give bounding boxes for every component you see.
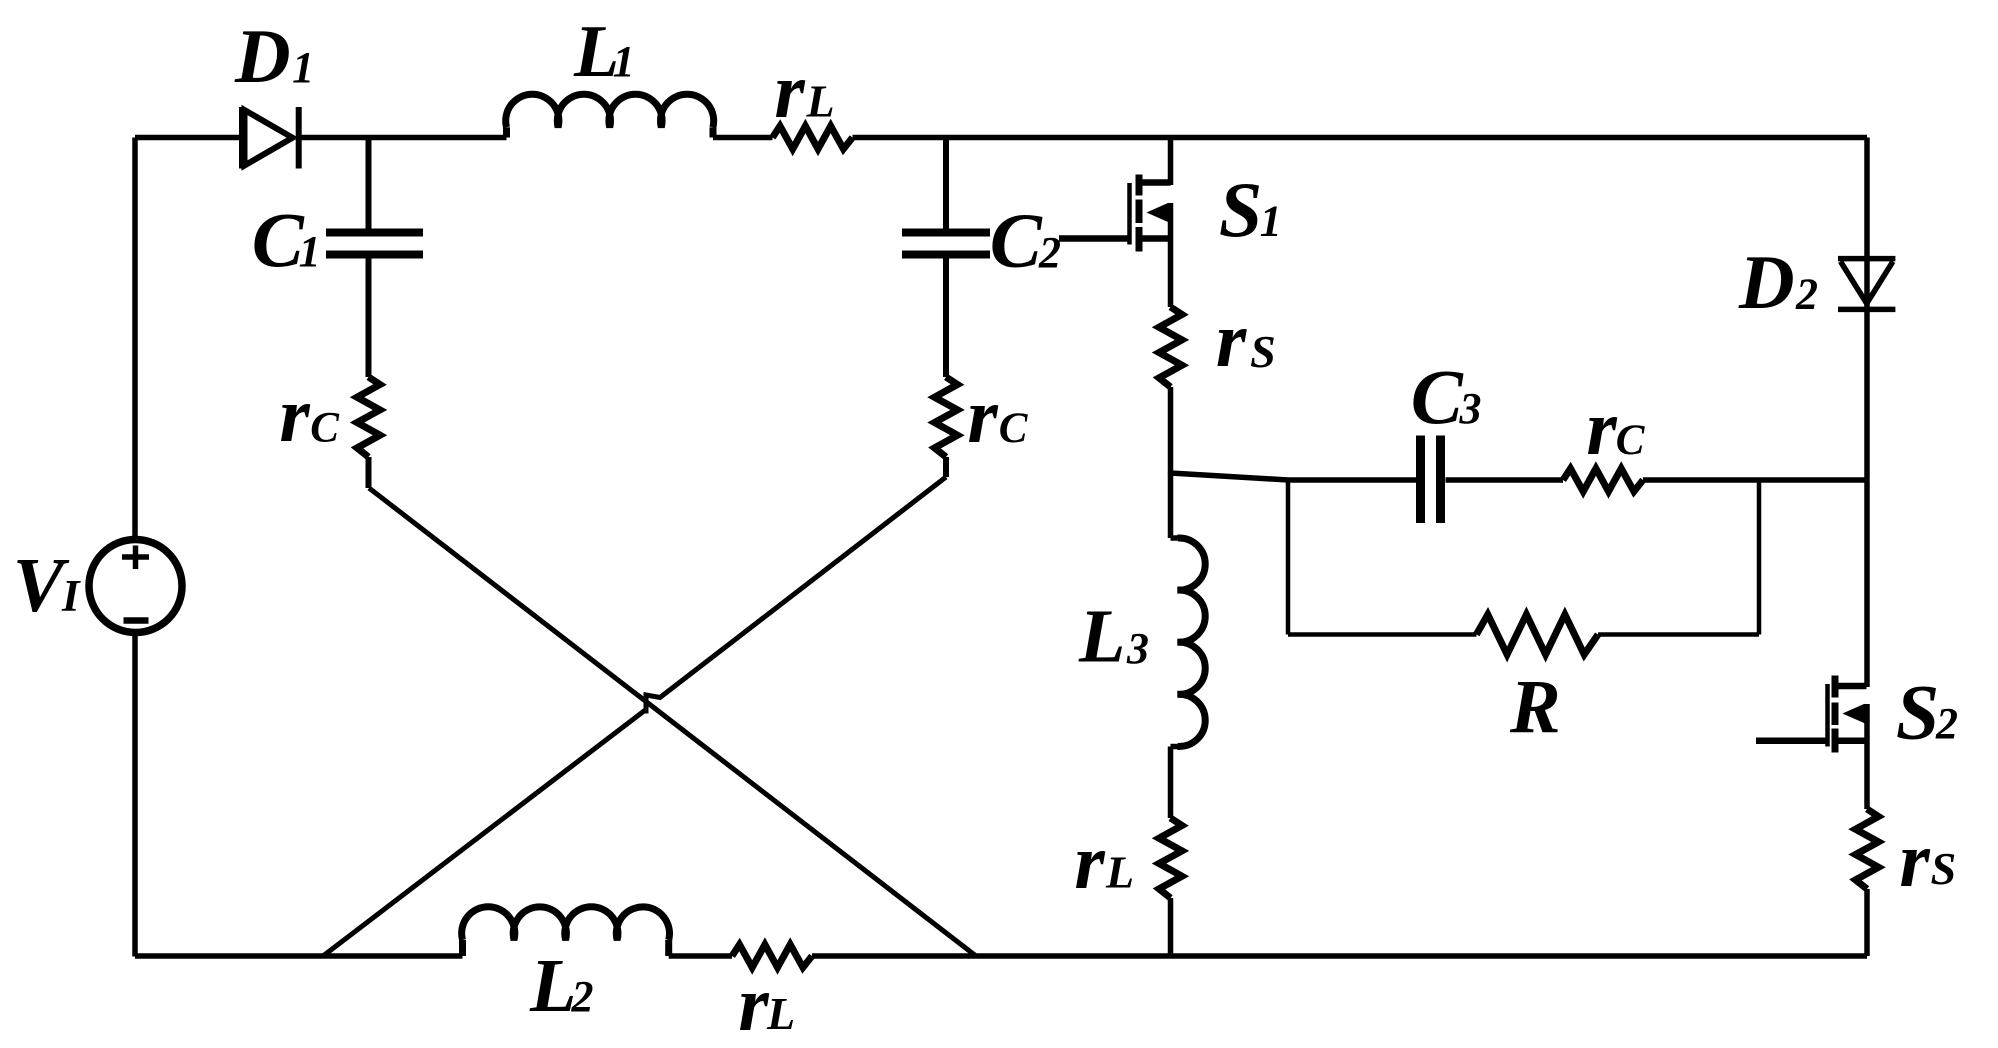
svg-text:C: C [990,197,1043,284]
svg-text:L: L [529,944,576,1028]
svg-text:C: C [1616,417,1646,464]
svg-text:r: r [1586,384,1617,471]
svg-text:C: C [999,405,1029,452]
svg-text:r: r [774,47,805,134]
svg-text:r: r [738,960,769,1047]
svg-text:R: R [1509,665,1561,749]
svg-text:1: 1 [292,43,314,92]
svg-text:2: 2 [1038,228,1061,277]
svg-text:3: 3 [1126,624,1149,673]
svg-text:2: 2 [571,972,594,1021]
svg-text:L: L [806,76,835,127]
svg-text:S: S [1931,843,1957,894]
svg-text:1: 1 [299,227,321,276]
svg-text:L: L [1078,595,1125,679]
svg-text:L: L [1105,847,1134,898]
svg-text:C: C [252,196,305,283]
svg-text:S: S [1250,326,1276,377]
svg-text:C: C [1411,353,1464,440]
svg-text:L: L [766,988,795,1039]
svg-text:r: r [967,372,998,459]
svg-text:S: S [1219,166,1262,253]
svg-text:1: 1 [1260,197,1282,246]
svg-text:C: C [310,405,340,452]
svg-text:r: r [1899,816,1930,903]
svg-text:2: 2 [1935,699,1958,748]
svg-text:r: r [1216,296,1247,383]
svg-text:r: r [279,371,310,458]
svg-text:D: D [1738,239,1795,325]
svg-text:S: S [1896,669,1939,756]
svg-text:r: r [1074,818,1105,905]
svg-text:I: I [61,571,81,621]
svg-text:D: D [234,13,291,99]
svg-text:3: 3 [1459,384,1482,433]
svg-text:2: 2 [1795,270,1818,319]
svg-text:1: 1 [613,37,635,86]
